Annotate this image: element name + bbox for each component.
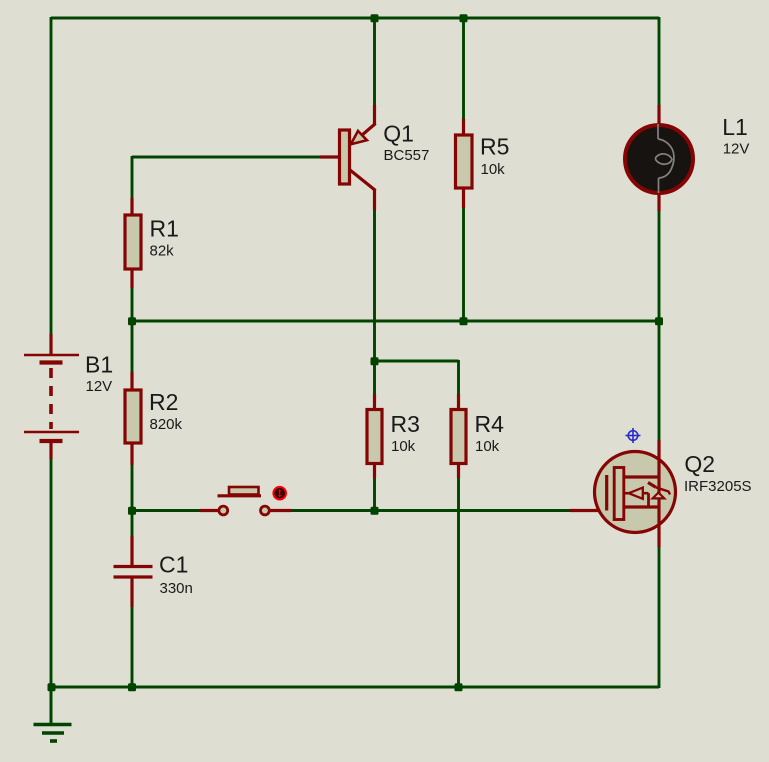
wire R3 top <box>373 361 376 394</box>
wire lamp top <box>658 17 661 105</box>
wire lamp bottom to mid rail <box>658 211 661 321</box>
wire top rail <box>51 17 659 20</box>
wire mid rail <box>132 320 659 323</box>
node R3 gate wire <box>371 507 379 515</box>
svg-text:12V: 12V <box>723 141 750 158</box>
node R4 bottom rail <box>455 683 463 691</box>
svg-text:10k: 10k <box>481 161 506 178</box>
wire Q2 source to bottom rail <box>658 547 661 688</box>
svg-text:R1: R1 <box>150 215 179 241</box>
wire R4 bottom <box>457 478 460 688</box>
origin marker Q2 <box>626 428 641 443</box>
resistor R2 <box>125 372 141 465</box>
resistor R5 <box>456 119 473 208</box>
node collector R3 R4 <box>371 357 379 365</box>
wire Q1 emitter to top rail <box>373 17 376 105</box>
wire R1 bottom to mid rail <box>131 288 134 321</box>
svg-text:C1: C1 <box>159 552 188 578</box>
resistor R4 <box>451 394 466 478</box>
capacitor C1 <box>114 536 153 607</box>
node mid rail R1 R2 <box>128 317 136 325</box>
svg-text:10k: 10k <box>391 438 416 455</box>
wire bottom rail <box>51 686 659 689</box>
node button R2 C1 <box>128 507 136 515</box>
wire R5 bottom <box>462 208 465 321</box>
battery B1 <box>24 334 79 459</box>
wire R3 R4 link <box>375 360 459 363</box>
wire button left <box>132 509 200 512</box>
svg-text:R3: R3 <box>391 411 420 437</box>
svg-text:12V: 12V <box>86 378 113 395</box>
wire mid rail to Q2 drain <box>658 321 661 440</box>
wire mid rail to R2 <box>131 321 134 372</box>
push button <box>200 487 291 515</box>
node mid rail lamp drain <box>655 317 663 325</box>
svg-text:R2: R2 <box>149 389 178 415</box>
svg-text:330n: 330n <box>160 580 193 597</box>
wire R2 bottom to button node <box>131 465 134 511</box>
wire R5 top <box>462 17 465 119</box>
wire left rail upper <box>50 17 53 334</box>
node mid rail R5 <box>460 317 468 325</box>
svg-text:L1: L1 <box>722 114 748 140</box>
transistor Q1 <box>320 105 376 210</box>
wire R1 top vertical <box>131 156 134 198</box>
node ground bottom rail <box>48 683 56 691</box>
wire button right to gate <box>291 509 570 512</box>
svg-text:R5: R5 <box>480 133 509 159</box>
wire R3 bottom <box>373 478 376 511</box>
svg-text:Q1: Q1 <box>383 121 414 147</box>
resistor R3 <box>367 394 382 478</box>
node top rail R5 <box>460 14 468 22</box>
svg-text:R4: R4 <box>475 411 505 437</box>
mosfet Q2 <box>570 440 676 547</box>
node top rail Q1 <box>371 14 379 22</box>
wire button node to C1 <box>131 510 134 536</box>
svg-text:10k: 10k <box>475 438 500 455</box>
wire left rail lower <box>50 459 53 688</box>
svg-text:IRF3205S: IRF3205S <box>684 478 752 495</box>
wire Q1 collector down <box>373 210 376 361</box>
wire C1 bottom to bottom rail <box>131 607 134 688</box>
svg-text:BC557: BC557 <box>384 147 430 164</box>
wire R4 top <box>457 360 460 394</box>
ground <box>34 687 72 741</box>
resistor R1 <box>125 198 141 288</box>
svg-text:82k: 82k <box>150 243 175 260</box>
lamp L1 <box>625 105 693 211</box>
svg-text:820k: 820k <box>150 416 183 433</box>
svg-text:B1: B1 <box>85 351 113 377</box>
node C1 bottom rail <box>128 683 136 691</box>
svg-text:Q2: Q2 <box>684 451 715 477</box>
wire R1 top to Q1 base horizontal <box>132 156 320 159</box>
